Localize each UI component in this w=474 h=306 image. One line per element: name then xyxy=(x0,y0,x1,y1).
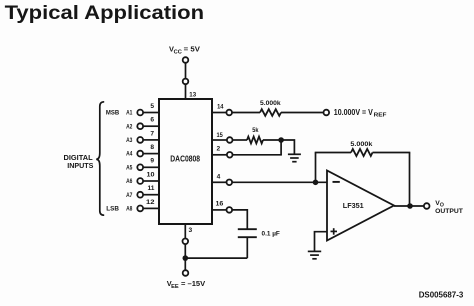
svg-text:O: O xyxy=(440,203,444,209)
digital inputs brace xyxy=(96,102,104,215)
svg-text:0.1 µF: 0.1 µF xyxy=(262,231,280,238)
wire pin 14 to R1 xyxy=(232,112,260,114)
svg-text:8: 8 xyxy=(150,144,154,151)
ground G1 xyxy=(288,154,301,161)
input A8 terminal xyxy=(137,206,143,212)
input A7 terminal xyxy=(137,192,143,198)
wire A6 to pin 10 xyxy=(143,180,159,182)
svg-text:5.000k: 5.000k xyxy=(350,141,372,148)
svg-text:LSB: LSB xyxy=(106,206,119,213)
wire pin 2 stub xyxy=(212,154,227,156)
svg-text:Typical Application: Typical Application xyxy=(5,2,205,24)
wire A5 to pin 9 xyxy=(143,166,159,168)
pin 2 connector circle xyxy=(227,152,233,158)
svg-text:12: 12 xyxy=(146,199,155,206)
wire non-inverting input to ground xyxy=(315,232,328,251)
node VO label xyxy=(435,200,444,209)
ground G2 xyxy=(308,251,321,258)
input A2 terminal xyxy=(137,123,143,129)
input A4 terminal xyxy=(137,151,143,157)
svg-text:5.000k: 5.000k xyxy=(260,100,281,107)
input A6 terminal xyxy=(137,178,143,184)
svg-text:14: 14 xyxy=(217,103,224,110)
svg-text:16: 16 xyxy=(216,201,224,208)
op-amp non-inverting input sign xyxy=(331,228,338,235)
svg-text:10: 10 xyxy=(147,171,155,178)
wire A7 to pin 11 xyxy=(143,194,159,196)
pin 14 connector circle xyxy=(226,110,232,116)
input A5 terminal xyxy=(137,164,143,170)
svg-text:DS005687-3: DS005687-3 xyxy=(419,291,464,300)
junction N2 summing node xyxy=(313,180,319,186)
junction N4 output node xyxy=(407,203,413,209)
pin 4 connector circle xyxy=(227,180,233,186)
input A3 terminal xyxy=(137,137,143,143)
svg-text:DAC0808: DAC0808 xyxy=(170,155,200,164)
svg-text:INPUTS: INPUTS xyxy=(67,161,93,170)
svg-text:5k: 5k xyxy=(252,127,259,134)
wire feedback down to output node xyxy=(409,153,411,207)
wire N1 down to pin 2 net xyxy=(280,140,282,155)
wire A3 to pin 7 xyxy=(143,139,159,141)
svg-text:13: 13 xyxy=(189,91,196,98)
capacitor C1 0.1uF xyxy=(238,229,257,237)
wire VCC to pin 13 xyxy=(185,84,187,99)
svg-text:= 5V: = 5V xyxy=(184,44,200,53)
wire A1 to pin 5 xyxy=(143,112,159,114)
wire VCC upper segment xyxy=(185,63,187,79)
DIGITAL INPUTS label xyxy=(64,153,94,170)
svg-text:A5: A5 xyxy=(126,164,133,171)
svg-text:A3: A3 xyxy=(126,137,133,144)
VO terminal xyxy=(424,203,430,209)
svg-text:11: 11 xyxy=(148,185,155,192)
wire feedback top right segment xyxy=(373,152,411,154)
svg-text:5: 5 xyxy=(150,103,154,110)
svg-text:3: 3 xyxy=(189,227,193,234)
svg-text:A4: A4 xyxy=(126,151,133,158)
wire N3 to VEE terminal xyxy=(184,258,186,270)
svg-text:CC: CC xyxy=(174,50,182,56)
svg-text:= –15V: = –15V xyxy=(181,279,205,288)
junction N1 xyxy=(278,137,284,143)
svg-text:LF351: LF351 xyxy=(343,201,364,210)
wire pin 4 to op-amp inverting input xyxy=(232,181,327,183)
svg-text:15: 15 xyxy=(217,132,224,139)
svg-text:OUTPUT: OUTPUT xyxy=(435,209,463,215)
svg-text:2: 2 xyxy=(217,145,221,152)
wire C1 bottom lead xyxy=(246,237,248,258)
wire N3 to capacitor bottom xyxy=(185,257,247,259)
pin 3 connector circle xyxy=(183,239,189,245)
svg-text:REF: REF xyxy=(374,113,387,119)
node VCC label xyxy=(169,44,200,55)
input A1 terminal xyxy=(137,110,143,116)
svg-text:6: 6 xyxy=(150,117,154,124)
wire feedback from N2 up xyxy=(315,153,317,183)
VREF terminal xyxy=(324,110,330,116)
wire op-amp output xyxy=(394,205,424,207)
op-amp U2 LF351 body xyxy=(327,171,394,241)
svg-text:9: 9 xyxy=(150,158,154,165)
svg-text:7: 7 xyxy=(150,130,154,137)
svg-text:MSB: MSB xyxy=(106,110,120,117)
wire pin 15 to R2 xyxy=(233,139,248,141)
VEE terminal xyxy=(183,270,189,276)
wire pin 15 stub xyxy=(212,139,227,141)
wire pin 16 to capacitor C1 xyxy=(232,210,247,229)
wire pin 3 circle to junction N3 xyxy=(184,244,186,258)
resistor R2 5k xyxy=(247,137,263,144)
wire pin 16 stub xyxy=(212,209,227,211)
svg-text:EE: EE xyxy=(171,284,179,290)
wire A2 to pin 6 xyxy=(143,125,159,127)
svg-text:4: 4 xyxy=(217,173,221,180)
junction N3 xyxy=(183,255,189,261)
VCC connector circle xyxy=(183,79,189,85)
pin 16 connector circle xyxy=(227,207,233,213)
op-amp inverting input sign xyxy=(333,181,340,183)
svg-text:A8: A8 xyxy=(126,206,133,213)
wire feedback top left segment xyxy=(315,152,351,154)
wire A8 to pin 12 xyxy=(143,207,159,209)
wire A4 to pin 8 xyxy=(143,153,159,155)
node VREF label xyxy=(334,108,387,119)
wire pin 4 stub xyxy=(212,181,227,183)
wire pin 2 to N1 xyxy=(233,154,282,156)
wire R2 to node N1 xyxy=(263,139,281,141)
node VEE label xyxy=(167,279,206,290)
wire N1 to ground xyxy=(281,140,294,154)
VCC terminal xyxy=(183,57,189,63)
svg-text:A7: A7 xyxy=(126,192,133,199)
wire pin 14 stub xyxy=(212,112,226,114)
resistor R3 feedback 5.000k xyxy=(351,149,373,156)
pin 15 connector circle xyxy=(227,137,233,143)
wire pin 3 stub xyxy=(184,224,186,239)
wire R1 to VREF terminal xyxy=(281,112,324,114)
resistor R1 5.000k xyxy=(260,109,281,116)
svg-text:A1: A1 xyxy=(126,110,133,117)
svg-text:A2: A2 xyxy=(126,123,133,130)
svg-text:A6: A6 xyxy=(126,178,133,185)
DAC0808 U1 body xyxy=(159,99,212,224)
svg-text:10.000V = V: 10.000V = V xyxy=(334,108,374,117)
